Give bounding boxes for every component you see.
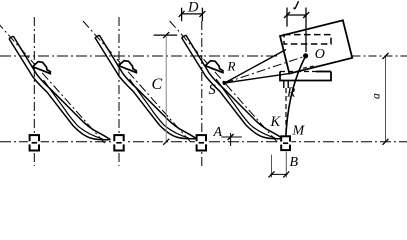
crank center O dot: [303, 53, 308, 58]
dimension D left extension: [181, 8, 183, 22]
dimension D line: [182, 13, 203, 15]
dimension B tick right: [283, 171, 289, 177]
vertical centerline 3: [201, 21, 203, 166]
base stub right: [287, 81, 289, 89]
dimension a line: [385, 56, 387, 142]
svg-text:B: B: [290, 155, 299, 170]
svg-text:R: R: [286, 85, 296, 100]
dimension a tick bottom: [383, 139, 389, 145]
svg-text:K: K: [270, 114, 282, 130]
lower horizontal centerline: [0, 141, 407, 143]
crank rod O to M (curved): [286, 56, 306, 137]
dimension B left extension: [271, 155, 273, 178]
dimension B tick left: [269, 171, 275, 177]
dimension l tick right: [303, 12, 309, 18]
scraper arm 3: [170, 21, 284, 144]
link rod lower edge S to housing corner: [225, 73, 291, 83]
dimension D tick right: [199, 11, 205, 17]
dimension C tick top: [163, 32, 169, 38]
crank housing rotated rectangle: [280, 20, 352, 73]
dimension C tick bottom: [163, 139, 169, 145]
dimension C line: [165, 35, 167, 142]
svg-text:a: a: [371, 93, 383, 99]
chain link M side gaps and dash: [280, 142, 283, 145]
scraper arm 2: [83, 21, 197, 144]
pin S: [223, 81, 227, 85]
svg-text:A: A: [213, 125, 223, 140]
vertical dashed centerline K-M: [285, 88, 287, 134]
upper horizontal centerline: [0, 55, 279, 57]
chain link 1: [28, 135, 41, 150]
scraper arm 1: [0, 22, 111, 145]
hidden slant segment near base: [303, 65, 317, 68]
base bracket: [280, 72, 331, 81]
base stub left: [283, 81, 285, 89]
dimension A tick vertical: [230, 133, 232, 146]
svg-text:O: O: [315, 47, 325, 62]
svg-text:D: D: [187, 0, 199, 16]
dimension C top tick bar: [154, 34, 178, 36]
dimension B right extension: [285, 152, 287, 178]
dimension l tick left: [284, 12, 290, 18]
vertical centerline 1: [33, 17, 35, 166]
dimension a tick top: [383, 53, 389, 59]
svg-text:C: C: [152, 76, 163, 93]
dimension A tick oblique: [228, 134, 234, 140]
vertical centerline 2: [118, 17, 120, 166]
dimension A line: [221, 136, 242, 138]
chain link M: [281, 136, 290, 150]
dimension l right extension: [305, 8, 307, 53]
svg-text:M: M: [292, 124, 306, 139]
hidden position dashed rectangle: [284, 35, 331, 44]
dimension D right extension: [201, 8, 203, 22]
link rod axis S to O dash-dot: [225, 56, 306, 83]
svg-text:R: R: [227, 59, 236, 74]
dimension l line: [287, 14, 306, 16]
chain link 3: [195, 135, 208, 150]
label l: [294, 1, 299, 8]
dimension l left extension: [286, 8, 288, 27]
svg-text:S: S: [209, 82, 217, 98]
chain link 2: [113, 135, 126, 150]
base bracket top edge (hidden part dashed): [280, 71, 316, 73]
link rod upper edge S to housing: [225, 50, 287, 84]
dimension B line: [270, 173, 287, 175]
dimension D tick left: [179, 11, 185, 17]
